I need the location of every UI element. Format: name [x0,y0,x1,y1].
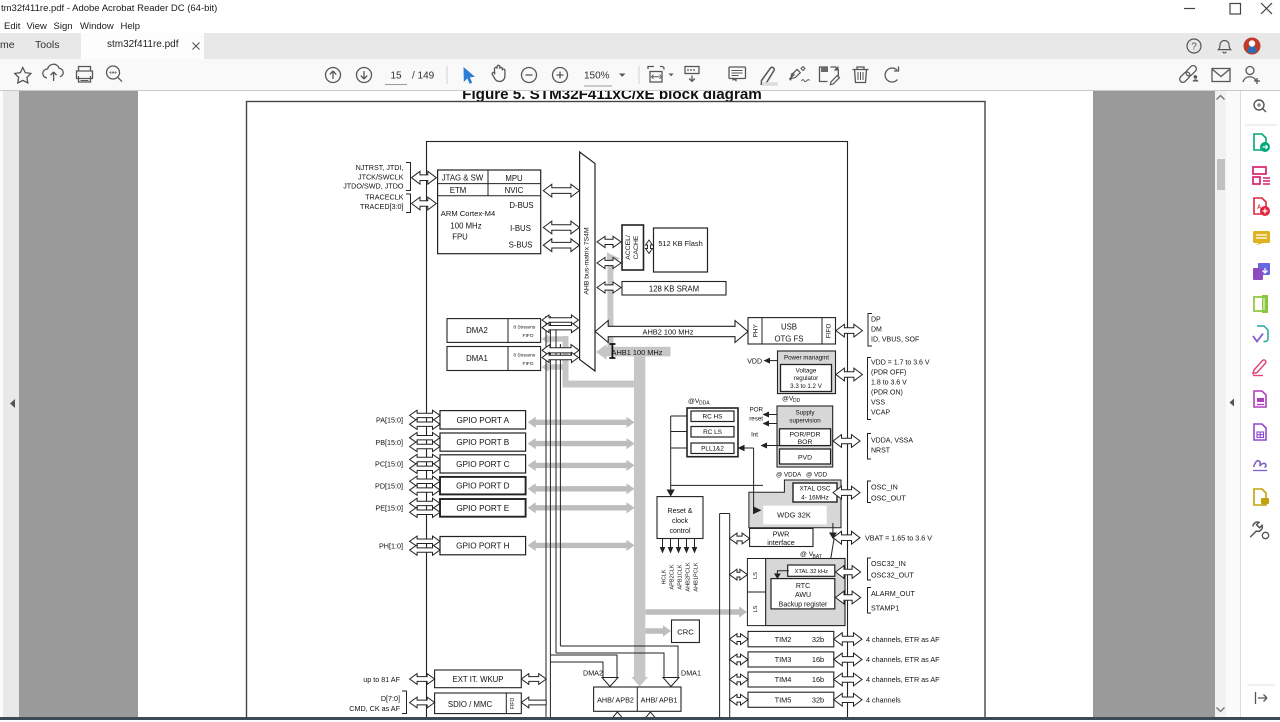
svg-text:D[7:0]: D[7:0] [381,694,400,703]
svg-text:GPIO PORT A: GPIO PORT A [457,416,510,425]
title bar [0,0,1280,20]
svg-text:I-BUS: I-BUS [510,224,531,233]
svg-text:16b: 16b [812,675,824,684]
svg-text:PLL1&2: PLL1&2 [701,446,724,453]
svg-text:ETM: ETM [450,186,466,195]
wire PLL feed [671,447,687,449]
svg-text:DD: DD [793,398,801,404]
figure frame [247,102,986,722]
svg-text:?: ? [1191,42,1197,53]
svg-text:DM: DM [871,326,882,333]
svg-text:AHB/ APB1: AHB/ APB1 [641,696,678,705]
zoom out [522,68,537,83]
arrow DMA2 to matrix a [542,315,579,325]
block RC group [687,408,738,457]
arrow GPIO E pins [410,498,440,508]
arrow I-BUS to matrix [543,221,579,234]
svg-text:POR: POR [750,407,764,414]
svg-text:DMA1: DMA1 [466,354,488,363]
arrow vreg pins [836,368,863,381]
svg-text:PVD: PVD [798,454,812,461]
arrow TIM4 pins [834,673,862,686]
bus S-BUS vertical pair [545,316,547,722]
bus D-BUS vertical pair [555,328,557,653]
svg-text:LS: LS [753,605,759,612]
svg-text:PB[15:0]: PB[15:0] [375,438,403,447]
wire DMA2 route arrowhead [602,678,618,687]
block GPIO PORT B [440,433,526,451]
block CPU ARM Cortex-M4 [438,170,541,254]
svg-text:SDIO / MMC: SDIO / MMC [448,700,493,709]
arrow USB pins [836,324,863,337]
svg-text:CRC: CRC [677,627,694,636]
bracket VDDA pins [868,434,872,460]
wire bridge out arrows [611,712,624,720]
block PVD [780,449,831,464]
block TIM5 [748,692,834,707]
svg-text:JTDO/SWD, JTDO: JTDO/SWD, JTDO [343,182,404,191]
redo [885,68,897,82]
block LS column [747,559,765,626]
svg-text:Int: Int [751,431,758,438]
magnifier [107,66,120,79]
svg-text:Voltage: Voltage [796,367,817,374]
svg-text:DMA1: DMA1 [681,669,701,678]
wire CPU row divider 2 [438,195,541,197]
svg-text:XTAL 32 kHz: XTAL 32 kHz [795,569,829,575]
svg-text:VDD = 1.7 to 3.6 V: VDD = 1.7 to 3.6 V [871,359,930,366]
bracket USB pins [868,314,872,347]
svg-text:ID, VBUS, SOF: ID, VBUS, SOF [871,336,919,343]
svg-text:AHB2PCLK: AHB2PCLK [686,562,692,591]
svg-text:DMA2: DMA2 [466,326,488,335]
bottom edge [0,717,1280,720]
fit width icon [648,67,664,70]
right scrollbar [1215,91,1226,717]
wire CPU col divider [487,170,489,196]
wire bridge divider [636,687,638,711]
svg-text:100 MHz: 100 MHz [450,222,481,231]
wire USB divider FIFO [821,318,823,344]
svg-text:GPIO PORT H: GPIO PORT H [456,542,509,551]
svg-text:FIFO: FIFO [523,333,534,339]
svg-text:PHY: PHY [753,323,760,337]
bus APB1 vertical pair [719,514,721,722]
arrow EXT IT left [410,674,435,685]
150% caret [619,74,625,77]
svg-text:ARM Cortex-M4: ARM Cortex-M4 [441,209,495,218]
wire PLL right feed [743,447,754,449]
block PLL [691,443,734,454]
wire POR arrow [768,414,777,416]
block RC LS [691,427,734,438]
sign pen [789,69,800,80]
svg-text:XTAL OSC: XTAL OSC [800,485,831,492]
bus AHB1 trunk head [631,677,648,687]
cursor I-beam [609,344,615,358]
svg-text:8 Streams: 8 Streams [513,325,535,331]
svg-text:EXT IT. WKUP: EXT IT. WKUP [453,675,504,684]
wire gray bus GPIO D [528,483,635,494]
svg-text:OTG FS: OTG FS [774,335,803,344]
wire gray stub to DMA1 [548,364,563,369]
svg-text:APB1CLK: APB1CLK [678,564,684,589]
svg-text:VDD: VDD [747,358,762,365]
select cursor (active, blue) [464,67,475,84]
printer [77,67,93,83]
wire gray feed CRC [645,625,671,636]
svg-text:GPIO PORT C: GPIO PORT C [456,460,509,469]
arrow GPIO A pins [410,410,440,420]
svg-text:PA[15:0]: PA[15:0] [376,416,403,425]
block GPIO PORT H [440,537,526,555]
PDF page [138,91,1093,717]
svg-text:32b: 32b [812,635,824,644]
svg-text:BOR: BOR [798,439,813,446]
svg-text:4 channels: 4 channels [866,695,901,704]
block DMA2 [447,319,541,343]
svg-text:OSC_IN: OSC_IN [871,483,898,492]
arrow GPIO C pins [410,454,440,464]
collapse strip [1226,91,1280,717]
svg-text:CACHE: CACHE [633,235,640,259]
arrow JTAG port [412,171,437,184]
separator [446,66,448,84]
svg-text:DP: DP [871,317,881,324]
svg-text:NRST: NRST [871,447,891,454]
arrow matrix to SRAM [597,282,621,293]
bracket VDD pins [868,358,872,420]
svg-text:regulator: regulator [794,375,818,382]
wire LS divider [747,591,765,593]
svg-text:PE[15:0]: PE[15:0] [375,504,403,513]
svg-text:FIFO: FIFO [523,361,534,367]
svg-text:TIM4: TIM4 [775,675,792,684]
arrow RTC apb [730,569,748,580]
svg-text:OSC_OUT: OSC_OUT [871,494,906,503]
arrow DMA1 to matrix b [542,353,579,363]
block power managmt [778,351,836,394]
svg-text:OSC32_OUT: OSC32_OUT [871,571,914,580]
wire clock vertical [670,416,672,493]
page up circle [326,68,341,83]
arrow OSC32 pins [836,566,861,579]
svg-text:up to 81 AF: up to 81 AF [363,675,400,684]
link [1178,64,1197,83]
svg-text:CMD, CK as AF: CMD, CK as AF [349,704,400,713]
svg-text:ACCEL/: ACCEL/ [625,235,632,260]
block clock gray region [749,480,841,528]
arrow TIM4 apb [730,674,749,685]
arrow DMA1 to matrix a [542,345,579,357]
bracket SDIO pins [402,691,407,714]
arrow DMA2 to matrix b [542,323,579,333]
toolbar [0,59,1280,91]
svg-text:Supply: Supply [796,410,816,417]
svg-text:FIFO: FIFO [510,697,516,708]
comment bubble [729,67,746,79]
block reset clock control [657,497,703,539]
svg-text:STAMP1: STAMP1 [871,604,899,613]
arrow SDIO left [410,697,435,708]
svg-text:16b: 16b [812,655,824,664]
svg-text:4 channels, ETR as AF: 4 channels, ETR as AF [866,675,940,684]
arrow matrix to cache 1 [597,236,621,247]
svg-text:NJTRST, JTDI,: NJTRST, JTDI, [356,163,404,172]
wire VDD arrow [768,360,778,362]
svg-text:15: 15 [390,71,402,82]
block XTAL OSC [793,483,837,502]
arrow SDIO right [521,697,546,708]
svg-text:PC[15:0]: PC[15:0] [375,460,403,469]
bus AHB2 100 MHz [595,321,748,343]
block supply supervision [777,406,833,467]
svg-text:Backup register: Backup register [779,601,828,608]
svg-text:Power managmt: Power managmt [784,354,829,361]
arrow supply pins [833,435,860,448]
svg-text:supervision: supervision [789,418,821,425]
svg-text:PH[1:0]: PH[1:0] [379,541,403,550]
svg-text:(PDR OFF): (PDR OFF) [871,369,906,376]
menu bar [0,20,1280,33]
svg-text:GPIO PORT B: GPIO PORT B [456,438,509,447]
svg-text:8 Streams: 8 Streams [513,353,535,359]
wire clock horiz to xtal [671,484,763,486]
block RTC AWU [771,579,835,609]
page down circle [357,68,372,83]
svg-text:WDG 32K: WDG 32K [777,511,811,520]
arrow S-BUS to matrix [543,239,579,252]
svg-text:4 channels, ETR as AF: 4 channels, ETR as AF [866,655,940,664]
svg-text:512 KB Flash: 512 KB Flash [658,239,702,248]
hand tool [492,65,505,81]
arrow TIM2 pins [834,633,862,646]
cloud upload [43,64,63,78]
block EXT IT WKUP [435,670,522,688]
right tools panel [1240,91,1280,717]
wire reset arrow [768,423,777,425]
svg-text:PD[15:0]: PD[15:0] [375,481,403,490]
svg-text:4- 16MHz: 4- 16MHz [801,494,829,501]
arrow TIM2 apb [730,634,749,645]
svg-text:JTCK/SWCLK: JTCK/SWCLK [358,172,404,181]
svg-text:@ VDD: @ VDD [806,472,828,479]
svg-text:VCAP: VCAP [871,410,890,417]
block USB OTG FS [748,318,836,344]
block XTAL 32 kHz [788,565,835,576]
block ACCEL/CACHE [622,225,644,270]
svg-text:AHB1PCLK: AHB1PCLK [694,562,700,591]
svg-text:OSC32_IN: OSC32_IN [871,559,906,568]
svg-text:1.8 to 3.6 V: 1.8 to 3.6 V [871,379,907,386]
bracket OSC32 [868,558,872,580]
wire gray bus GPIO H [528,540,635,551]
svg-text:VDDA, VSSA: VDDA, VSSA [871,437,913,444]
svg-text:AHB bus-matrix 7S4M: AHB bus-matrix 7S4M [584,227,591,295]
block RC HS [691,411,734,422]
svg-text:/ 149: / 149 [412,71,435,82]
svg-text:DDA: DDA [699,401,710,407]
svg-text:(PDR ON): (PDR ON) [871,389,903,396]
block GPIO PORT D [440,477,526,495]
svg-text:RC HS: RC HS [703,414,723,421]
arrow ALARM pins [836,591,861,604]
bracket ALARM [868,588,872,614]
person add [1246,67,1254,75]
svg-text:4 channels, ETR as AF: 4 channels, ETR as AF [866,635,940,644]
left collapsed panel [0,91,19,717]
svg-text:AHB1 100 MHz: AHB1 100 MHz [612,348,663,357]
wire xtal32 to rtc [777,571,789,574]
svg-text:DMA2: DMA2 [583,669,603,678]
arrow NVIC to matrix [543,184,579,197]
svg-text:TIM3: TIM3 [775,655,792,664]
wire gray stub to DMA2 [548,336,569,341]
wire DMA1 divider [507,347,509,371]
chip boundary [427,142,848,722]
svg-text:D-BUS: D-BUS [509,201,533,210]
arrow GPIO B pins [410,433,440,443]
svg-text:LS: LS [753,572,759,579]
separator [638,66,640,84]
svg-text:VSS: VSS [871,399,885,406]
wire DMA2 route to AHB/APB2 [550,655,617,678]
wire AHB1 gray up-branch [607,256,613,348]
wire gray column to crossbar [563,336,569,388]
arrow PWR apb [730,533,750,544]
arrow OSC pins [833,486,860,499]
wire USB divider PHY [761,318,763,344]
svg-text:HCLK: HCLK [662,569,668,584]
star [15,68,31,84]
wire DMA1 route to AHB/APB1 [556,653,664,678]
wire RC LS feed [671,431,687,433]
wire gray bus GPIO E [528,502,635,513]
arrow matrix to cache 2 [597,257,621,268]
wire Int arrow [766,445,780,447]
svg-text:JTAG & SW: JTAG & SW [442,174,484,183]
envelope [1212,69,1230,82]
svg-text:@ VDDA: @ VDDA [776,472,802,479]
svg-text:TRACECLK: TRACECLK [365,193,404,202]
svg-text:AHB/ APB2: AHB/ APB2 [597,696,634,705]
block POR/PDR BOR [780,429,831,446]
svg-text:RTC: RTC [796,583,810,590]
block TIM3 [748,652,834,667]
tab bar [0,33,1280,59]
svg-text:clock: clock [672,518,688,525]
block DMA1 [447,347,541,371]
wire gray crossbar [563,381,646,388]
wire CPU row divider 1 [438,183,541,185]
zoom in [553,68,568,83]
block TIM4 [748,672,834,687]
arrow EXT IT right [521,674,546,685]
bus AHB1 trunk [634,352,645,677]
svg-text:reset: reset [749,415,763,422]
arrow TIM3 apb [730,654,749,665]
block GPIO PORT C [440,455,526,473]
wire gray bus GPIO C [528,460,635,471]
svg-text:USB: USB [781,323,797,332]
svg-text:POR/PDR: POR/PDR [790,432,821,439]
svg-text:VBAT = 1.65 to 3.6 V: VBAT = 1.65 to 3.6 V [865,533,932,542]
svg-text:32b: 32b [812,695,824,704]
svg-text:TIM5: TIM5 [775,695,792,704]
svg-text:GPIO PORT E: GPIO PORT E [456,504,509,513]
arrow TRACE port [412,197,437,210]
trash [853,67,869,83]
block AHB bus-matrix [580,152,595,371]
block GPIO PORT E [440,499,526,517]
arrow cache-flash [646,240,653,254]
page scroll icon [685,67,699,74]
highlighter [761,67,774,84]
svg-text:AHB2 100 MHz: AHB2 100 MHz [643,328,694,337]
svg-text:150%: 150% [584,71,610,82]
arrow GPIO D pins [410,476,440,486]
bus AHB1 100 MHz band [602,347,671,357]
svg-text:MPU: MPU [505,174,523,183]
wire gray bus GPIO A [528,417,635,428]
arrow TIM5 apb [730,694,749,705]
svg-text:TRACED[3:0]: TRACED[3:0] [360,202,404,211]
svg-text:TIM2: TIM2 [775,635,792,644]
svg-text:RC LS: RC LS [703,429,722,436]
svg-text:GPIO PORT D: GPIO PORT D [456,482,509,491]
svg-text:APB2CLK: APB2CLK [670,564,676,589]
wire AHB1 up-branch head [607,253,620,265]
arrow TIM5 pins [834,693,862,706]
svg-text:Reset &: Reset & [668,508,693,515]
svg-text:3.3 to 1.2 V: 3.3 to 1.2 V [790,383,823,390]
block WDG 32K [763,506,826,525]
wire VBAT down [832,523,834,533]
wire SDIO divider [505,693,507,714]
block AHB APB bridges [594,687,681,711]
block 512 KB Flash [654,228,708,272]
wire DMA1 route arrowhead [663,678,679,687]
block GPIO PORT A [440,411,526,429]
wire DMA2 divider [507,319,509,343]
wire gray bus GPIO B [528,438,635,449]
wire gray feed RTC [645,606,747,617]
bracket TRACE pins [406,194,411,213]
block CRC [672,620,700,643]
arrow TIM3 pins [834,653,862,666]
wire clock arrowhead [667,490,675,497]
svg-text:FPU: FPU [452,233,468,242]
arrow GPIO H pins [410,536,440,546]
svg-text:128 KB SRAM: 128 KB SRAM [649,285,699,294]
svg-text:S-BUS: S-BUS [509,241,533,250]
bus AHB1 left head [596,344,607,360]
svg-text:ALARM_OUT: ALARM_OUT [871,589,916,598]
wire RC HS feed [671,415,687,417]
arrow VBAT pin [833,531,860,544]
block voltage regulator [781,365,832,392]
block 128 KB SRAM [622,282,726,296]
block SDIO MMC [435,693,522,714]
svg-text:FIFO: FIFO [826,323,833,338]
bracket JTAG pins [406,163,411,191]
bracket OSC pins [868,481,872,503]
svg-text:interface: interface [767,538,795,547]
svg-text:control: control [669,528,690,535]
block TIM2 [748,631,834,646]
block backup gray region [766,559,845,626]
page flip pencil [820,67,829,82]
